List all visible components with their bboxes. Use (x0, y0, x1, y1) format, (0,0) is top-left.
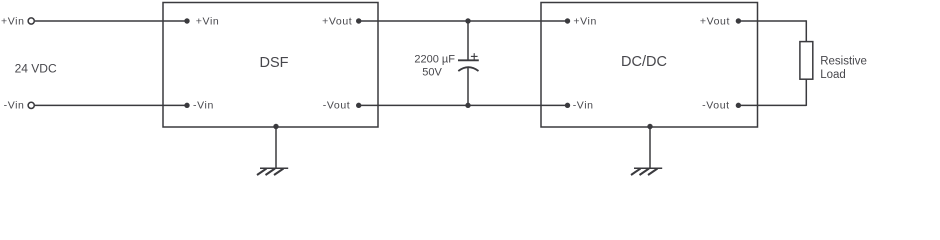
svg-text:+Vout: +Vout (322, 15, 352, 27)
svg-text:2200 µF: 2200 µF (414, 54, 455, 66)
svg-text:-Vin: -Vin (4, 99, 25, 111)
svg-text:DC/DC: DC/DC (621, 54, 667, 70)
svg-text:Resistive: Resistive (820, 56, 867, 68)
svg-text:-Vout: -Vout (323, 99, 351, 111)
svg-text:+Vin: +Vin (1, 15, 25, 27)
svg-text:+Vin: +Vin (573, 15, 597, 27)
svg-text:-Vin: -Vin (193, 99, 214, 111)
svg-text:50V: 50V (422, 67, 442, 79)
svg-text:-Vin: -Vin (573, 99, 594, 111)
svg-text:+Vin: +Vin (196, 15, 220, 27)
svg-text:Load: Load (820, 69, 846, 81)
svg-text:24 VDC: 24 VDC (15, 62, 57, 76)
svg-text:-Vout: -Vout (702, 99, 730, 111)
svg-text:+Vout: +Vout (700, 15, 730, 27)
svg-text:DSF: DSF (260, 55, 289, 71)
